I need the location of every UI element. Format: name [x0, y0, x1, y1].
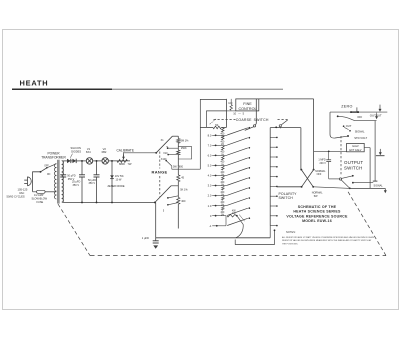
- svg-text:—: —: [238, 113, 241, 116]
- svg-text:RANGE: RANGE: [152, 170, 168, 175]
- svg-text:7W: 7W: [128, 162, 132, 166]
- svg-text:6.0: 6.0: [208, 154, 212, 158]
- svg-text:MODEL EUW-16: MODEL EUW-16: [302, 219, 332, 223]
- svg-text:OFF: OFF: [44, 165, 49, 167]
- svg-text:OFF: OFF: [357, 116, 362, 119]
- svg-text:1%: 1%: [221, 184, 224, 186]
- svg-text:SCHEMATIC OF THE: SCHEMATIC OF THE: [298, 205, 337, 209]
- svg-text:GALV: GALV: [352, 145, 359, 148]
- svg-text:OUTPUT: OUTPUT: [344, 160, 363, 165]
- svg-text:CALIBRATE: CALIBRATE: [117, 148, 134, 152]
- svg-text:NOTES:: NOTES:: [286, 230, 296, 234]
- svg-text:ALL RESISTORS ARE 1/2 WATT UNL: ALL RESISTORS ARE 1/2 WATT UNLESS OTHERW…: [282, 236, 375, 239]
- svg-text:7.0: 7.0: [208, 143, 212, 147]
- svg-text:V1: V1: [87, 147, 91, 151]
- svg-text:3.0: 3.0: [208, 184, 212, 188]
- svg-text:4.0: 4.0: [208, 174, 212, 178]
- svg-text:SWITCH: SWITCH: [254, 118, 269, 122]
- svg-text:SIGNAL: SIGNAL: [374, 185, 384, 188]
- svg-text:1%: 1%: [221, 144, 224, 146]
- svg-text:100: 100: [228, 102, 233, 105]
- svg-text:8.0: 8.0: [208, 133, 212, 137]
- svg-text:10V 5%: 10V 5%: [115, 175, 125, 178]
- svg-text:FINE: FINE: [243, 102, 252, 106]
- svg-text:X10: X10: [163, 152, 168, 155]
- svg-text:1%: 1%: [232, 213, 235, 215]
- svg-text:250K: 250K: [181, 147, 187, 150]
- svg-text:5.0: 5.0: [208, 164, 212, 168]
- svg-text:VAC: VAC: [19, 191, 24, 195]
- svg-text:OUT: OUT: [346, 124, 352, 128]
- svg-text:ON: ON: [47, 174, 51, 176]
- svg-text:6X4: 6X4: [86, 150, 91, 154]
- svg-text:5W: 5W: [314, 195, 318, 198]
- svg-text:VOLTAGE REFERENCE SOURCE: VOLTAGE REFERENCE SOURCE: [286, 214, 348, 218]
- svg-text:HEATH SCIENCE SERIES: HEATH SCIENCE SERIES: [293, 210, 341, 214]
- svg-text:THE POSITIONS.: THE POSITIONS.: [282, 243, 298, 245]
- svg-text:2.0: 2.0: [208, 194, 212, 198]
- svg-text:0B2: 0B2: [102, 150, 107, 154]
- svg-text:1.0: 1.0: [208, 204, 212, 208]
- svg-text:1%: 1%: [221, 174, 224, 176]
- svg-text:DIODES: DIODES: [71, 149, 81, 153]
- svg-text:TRANSFORMER: TRANSFORMER: [41, 155, 66, 159]
- svg-text:1%: 1%: [221, 194, 224, 196]
- svg-text:1%: 1%: [221, 164, 224, 166]
- svg-text:ZENER DIODE: ZENER DIODE: [108, 185, 125, 188]
- svg-text:1 µFD: 1 µFD: [142, 236, 149, 240]
- svg-text:HEATH: HEATH: [20, 79, 49, 88]
- svg-text:10 W: 10 W: [116, 178, 122, 181]
- svg-text:5K 1%: 5K 1%: [180, 189, 188, 192]
- svg-text:RESISTOR VALUES SHOWN WERE MEA: RESISTOR VALUES SHOWN WERE MEASURED WITH…: [282, 239, 372, 242]
- svg-text:ZERO: ZERO: [341, 105, 352, 109]
- svg-text:STD VOLT: STD VOLT: [354, 136, 367, 140]
- svg-text:1%: 1%: [221, 154, 224, 156]
- svg-text:SIGNAL: SIGNAL: [355, 130, 365, 134]
- svg-text:8800: 8800: [119, 162, 125, 166]
- svg-text:CONTROL: CONTROL: [238, 107, 256, 111]
- svg-text:1%: 1%: [221, 215, 224, 217]
- svg-text:EXT GALV: EXT GALV: [349, 149, 361, 152]
- svg-text:V2: V2: [103, 147, 107, 151]
- svg-text:1%: 1%: [221, 205, 224, 207]
- svg-text:SWITCH: SWITCH: [344, 165, 363, 170]
- svg-text:SWITCH: SWITCH: [279, 196, 294, 200]
- svg-text:350 V: 350 V: [73, 184, 80, 187]
- svg-text:POLARITY: POLARITY: [279, 192, 298, 196]
- svg-text:400: 400: [181, 200, 186, 203]
- svg-text:5M 1%: 5M 1%: [181, 140, 190, 143]
- svg-text:OFF: OFF: [317, 173, 322, 176]
- svg-text:FUSE: FUSE: [37, 201, 44, 204]
- svg-text:50/60 CYCLES: 50/60 CYCLES: [7, 194, 25, 198]
- svg-text:350 V: 350 V: [89, 182, 96, 185]
- svg-text:200 V: 200 V: [320, 162, 327, 165]
- svg-text:COARSE: COARSE: [236, 118, 252, 122]
